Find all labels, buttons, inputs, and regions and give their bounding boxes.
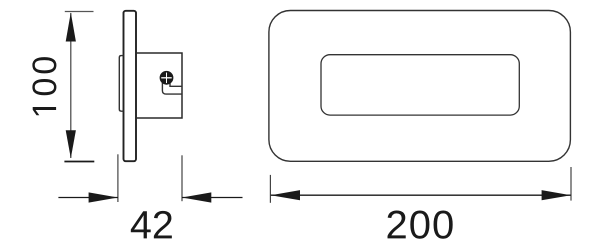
side view diffuser lip — [119, 56, 123, 112]
front view window — [321, 55, 519, 115]
dim 200 arrow right (points right) — [542, 190, 571, 200]
side view faceplate — [124, 11, 137, 161]
dim 200 extension line left — [269, 175, 271, 203]
mounting clip lower — [162, 83, 182, 95]
dim 42 tail right — [182, 197, 243, 199]
side view mounting box — [136, 53, 182, 118]
dim 100 label — [32, 57, 56, 115]
dim 100 line — [70, 13, 72, 158]
dim 200 label — [388, 210, 453, 238]
screw head — [160, 72, 172, 84]
dim 200 line — [271, 194, 571, 196]
dim 42 extension line left — [117, 154, 119, 202]
dim 42 arrow left (points right) — [89, 192, 118, 202]
dim 200 extension line right — [570, 167, 572, 201]
dim 42 label — [131, 211, 172, 239]
dim 42 tail left — [58, 197, 118, 199]
dim 42 arrow right (points left) — [182, 192, 211, 202]
dim 100 arrow up — [66, 13, 76, 42]
dim 100 extension tick top — [65, 11, 94, 13]
dim 100 extension tick bottom — [64, 161, 94, 163]
dim 100 arrow down — [66, 130, 76, 158]
dim 200 arrow left (points left) — [271, 190, 300, 200]
front view outer body — [269, 11, 571, 162]
mounting clip upper — [170, 82, 182, 87]
dim 42 extension line right — [181, 155, 183, 201]
